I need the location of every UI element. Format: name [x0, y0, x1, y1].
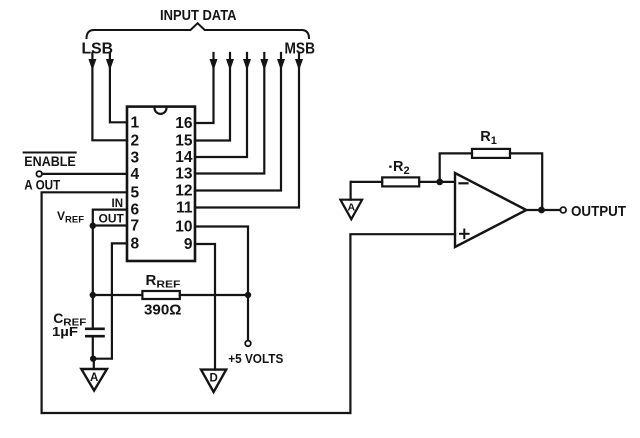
junction dot RREF left [90, 292, 96, 298]
svg-text:16: 16 [175, 115, 193, 132]
junction dot output [538, 207, 545, 214]
svg-text:5: 5 [131, 184, 140, 201]
terminal circle A OUT (pin 4) [36, 171, 42, 177]
svg-text:LSB: LSB [82, 41, 114, 58]
wire pin 4 [42, 173, 127, 175]
IC U1 body (16-pin DAC) [127, 107, 195, 261]
svg-text:15: 15 [175, 133, 193, 150]
svg-text:12: 12 [175, 183, 192, 200]
svg-text:INPUT DATA: INPUT DATA [160, 8, 237, 24]
op-amp minus sign [460, 182, 468, 184]
ground D (digital) [201, 370, 226, 392]
svg-text:6: 6 [131, 202, 140, 219]
wire pin 9 to digital ground [195, 244, 215, 370]
capacitor CREF [86, 329, 103, 336]
svg-text:OUTPUT: OUTPUT [571, 203, 626, 220]
svg-text:A: A [90, 372, 98, 384]
svg-text:A OUT: A OUT [24, 178, 60, 193]
wire feedback up left [440, 153, 472, 182]
op-amp plus sign [460, 230, 469, 239]
svg-text:D: D [210, 373, 218, 385]
wire pin 10 to +5V node [195, 227, 248, 296]
svg-text:ENABLE: ENABLE [24, 154, 76, 169]
input data arrow/wire bit to pin 13 [195, 53, 268, 174]
wire +5V terminal [247, 295, 249, 340]
input data arrow/wire bit to pin 2 [88, 53, 127, 140]
input data arrow/wire bit to pin 14 [195, 53, 251, 157]
junction dot inverting input [436, 179, 443, 186]
brace under INPUT DATA [87, 23, 310, 38]
svg-text:13: 13 [175, 166, 193, 183]
bottom rail wire [42, 412, 351, 414]
svg-text:A: A [348, 202, 356, 214]
input data arrow/wire bit to pin 11 [195, 53, 303, 208]
output wire [526, 209, 560, 211]
ground A (analog) [81, 369, 107, 391]
wire down to capacitor [92, 295, 94, 328]
svg-text:11: 11 [176, 200, 193, 217]
svg-text:9: 9 [184, 236, 193, 253]
wire pin 7 (VREF OUT) [93, 224, 127, 226]
op-amp U2 [455, 173, 526, 247]
wire up to op-amp + input [350, 234, 455, 413]
wire to analog ground [93, 359, 95, 369]
svg-text:10: 10 [175, 219, 192, 236]
wire feedback right down [510, 153, 542, 210]
wire pin 6 (VREF IN) [93, 210, 127, 226]
terminal circle OUTPUT [560, 207, 566, 213]
svg-text:OUT: OUT [99, 212, 125, 226]
wire pin 5 to bottom rail [42, 192, 127, 413]
resistor R1 [472, 149, 510, 158]
input data arrow/wire bit to pin 12 [195, 53, 285, 191]
svg-text:14: 14 [175, 149, 193, 166]
junction dot +5V node [245, 292, 251, 298]
wire pin 8 [94, 243, 127, 358]
wire R2 to ground [350, 182, 352, 200]
junction dot analog ground [90, 356, 96, 362]
svg-text:390Ω: 390Ω [144, 302, 181, 319]
ground A (at R2) [340, 200, 362, 220]
resistor R2 [351, 177, 455, 186]
svg-text:7: 7 [131, 218, 140, 235]
svg-text:2: 2 [131, 132, 140, 149]
wire VREF node down to RREF row [92, 226, 94, 295]
svg-text:+5 VOLTS: +5 VOLTS [228, 351, 283, 366]
resistor RREF [93, 291, 248, 299]
svg-text:4: 4 [131, 166, 140, 183]
svg-text:8: 8 [131, 235, 140, 252]
svg-text:1: 1 [131, 114, 140, 131]
svg-text:3: 3 [131, 149, 140, 166]
wire capacitor to ground node [92, 336, 94, 359]
input data arrow/wire bit to pin 15 [195, 53, 234, 141]
input data arrow/wire bit to pin 16 [195, 53, 218, 123]
junction dot VREF [90, 223, 96, 229]
terminal circle +5V [245, 341, 251, 347]
svg-text:1µF: 1µF [52, 325, 78, 339]
svg-text:IN: IN [112, 198, 124, 210]
input data arrow/wire bit to pin 1 [106, 53, 127, 122]
